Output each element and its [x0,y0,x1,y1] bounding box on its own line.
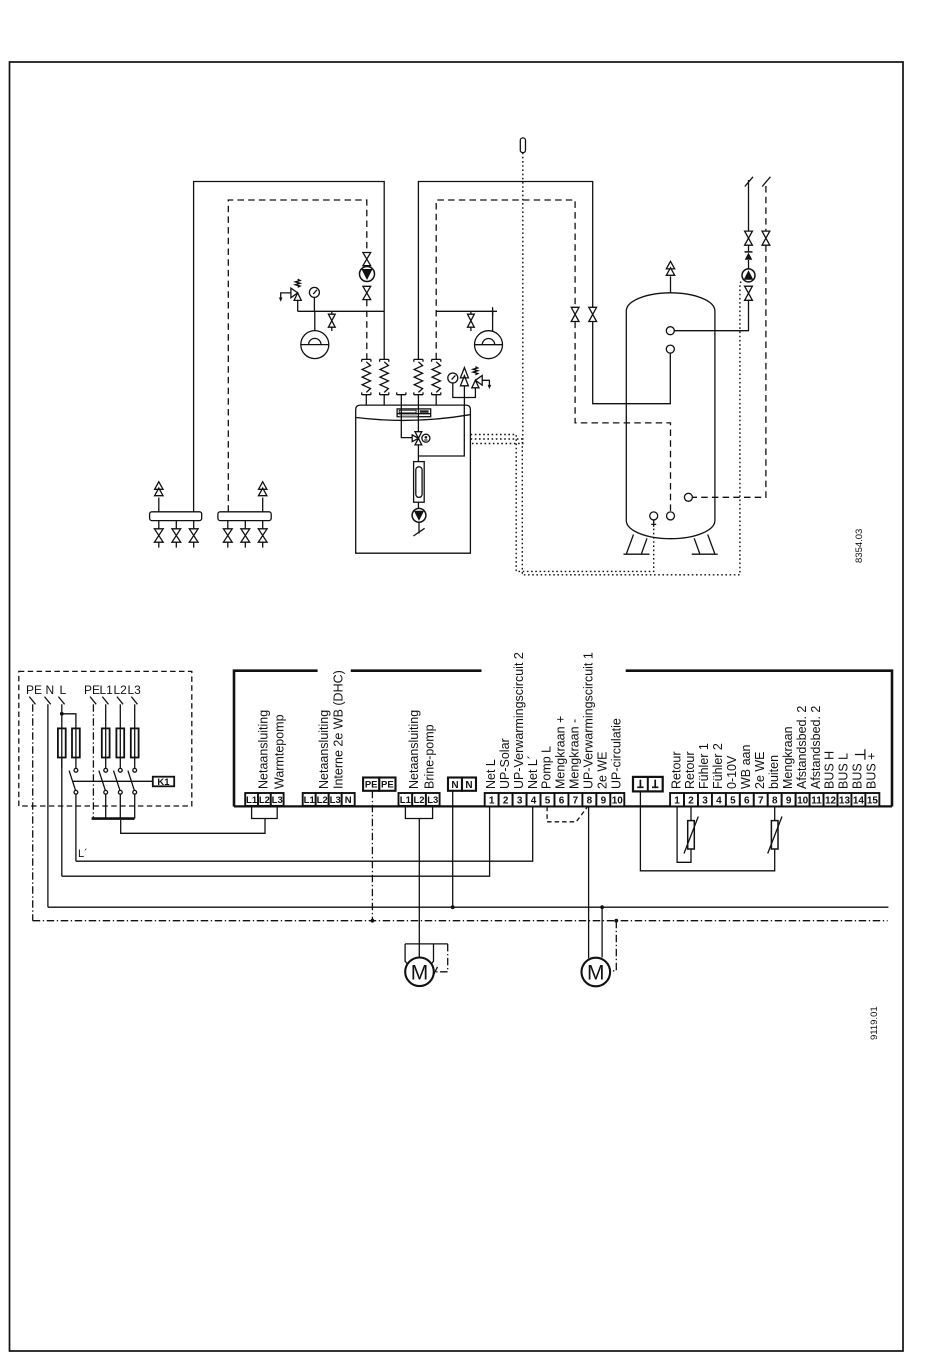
svg-text:UP-Verwarmingscircuit 1: UP-Verwarmingscircuit 1 [582,652,596,789]
svg-text:Net L´: Net L´ [526,755,540,789]
svg-text:PE: PE [26,683,42,697]
wire V8 stub [470,327,472,331]
svg-text:L1: L1 [400,795,412,806]
svg-text:Warmtepomp: Warmtepomp [273,714,287,789]
wire HP port stem x=384.2 [383,395,385,405]
wire gauge1 stem [313,297,315,311]
wire vent stem x=158.8 [158,498,160,512]
tank right leg [692,535,718,555]
svg-text:L2: L2 [114,683,128,697]
slide contact mark M1 [433,967,438,977]
svg-text:13: 13 [839,795,851,806]
svg-text:L: L [60,683,67,697]
terminal X2-4 [712,793,726,806]
svg-text:N: N [451,780,458,791]
svg-text:BUS L: BUS L [837,753,851,789]
terminal WP L3 [271,793,284,806]
svg-text:Afstandsbed. 2: Afstandsbed. 2 [809,706,823,789]
terminal WB L3 [329,793,342,806]
outdoor sensor B1 [520,138,525,153]
wire HP port stem x=366.3 [365,395,367,405]
wire splice mid leg [429,944,433,967]
wire SV1 stem [297,300,299,311]
heat pump internal level curve [356,415,470,421]
terminal PE a [363,778,379,791]
tank port C1 [666,327,674,335]
wire ground block to sensor line [640,792,774,871]
flex top flange x=436.2 [432,359,441,361]
wire K1 control link [73,780,153,782]
svg-text:PE: PE [365,780,378,791]
controller plate [397,409,431,417]
svg-text:L2: L2 [317,795,328,806]
fill cap cross [492,307,494,315]
terminal X2-9 [782,793,796,806]
wire DHW return dashed lower [692,245,766,497]
node PE terminal junction [371,919,375,923]
wire dotted control to tank sensor [471,435,654,572]
wire manifold valve stem x=176.3 [175,521,177,548]
svg-text:M: M [411,961,429,984]
terminal X2-1 [670,793,684,806]
manifold valve x=262.7 [258,529,267,542]
terminal X1-5 [541,793,555,806]
wire PE2 drop [92,704,94,818]
wire to internal pump [417,502,419,508]
mixing valve actuator [422,434,430,442]
manifold valve x=245.3 [241,529,250,542]
svg-text:3: 3 [702,795,708,806]
wire safety bracket right [453,383,476,398]
switch contact x=120.3 [114,768,123,794]
switch contact x=75.9 [69,768,78,794]
svg-text:Netaansluiting: Netaansluiting [407,710,421,789]
wire through fuse x=134.7 [134,730,136,769]
manifold 1 [150,512,202,521]
svg-text:buiten: buiten [767,755,781,789]
wire below internal pump with break slash [413,522,424,536]
terminal X2-3 [698,793,712,806]
terminal X2-2 [684,793,698,806]
drain valve V7 [331,311,333,314]
pressure gauge PG1 [309,287,319,297]
pump P2 heating circuit [360,267,375,282]
wire tank vent stem [670,276,672,293]
svg-text:12: 12 [825,795,837,806]
svg-text:Net L: Net L [484,759,498,789]
wire HP return from tank (dashed) [436,200,575,359]
wire HP internal valve bottom to flow meter [417,445,419,462]
svg-text:5: 5 [730,795,736,806]
svg-text:L3: L3 [272,795,283,806]
terminal X2-8 [768,793,782,806]
terminal X1-6 [555,793,569,806]
pressure gauge PG2 [448,373,458,383]
terminal block grounds [633,777,663,792]
valve V4 below pump P2 [363,286,371,299]
manifold valve x=227.8 [223,529,232,542]
heat pump unit box [356,405,471,553]
terminal X1-1 [485,793,499,806]
wire through fuse x=75.9 [75,730,77,769]
wire PE bus dash-dot [33,920,888,922]
wire manifold valve stem x=227.8 [227,521,229,548]
wire PE drop [32,704,34,920]
manifold valve x=176.3 [172,529,181,542]
svg-text:Netaansluiting: Netaansluiting [317,710,331,789]
svg-text:2e WE: 2e WE [596,751,610,789]
wire HP supply to tank (solid) [418,182,592,360]
svg-text:PE: PE [84,683,100,697]
svg-text:UP-Solar: UP-Solar [498,738,512,789]
valve V3 above pump P2 [363,253,371,266]
pump P1 internal [412,508,426,522]
svg-text:1: 1 [489,795,495,806]
wire heating circuit 2 (dashed riser manifold2 to top) [228,200,366,512]
incoming feed slash x=134.7 [131,697,137,705]
valve V5 on dashed return [571,307,579,321]
tank air vent [666,261,674,275]
wire tank supply lower segment [593,322,671,404]
wire N drop [47,704,49,907]
wire outdoor sensor dotted lead [471,153,523,444]
flex top flange x=366.3 [362,359,371,361]
svg-text:5: 5 [545,795,551,806]
terminal X2-6 [740,793,754,806]
wire L branch to second fuse [62,714,76,730]
drain valve V7 body [328,314,335,327]
terminal X2-11 [810,793,824,806]
HP port flange x=401.3 [397,392,406,394]
wire splice left leg [405,944,410,967]
wire dotted control to DHW pump [471,280,744,575]
check valve CV1 [748,260,750,269]
valve V10 [745,231,753,245]
tank port C3 [667,512,675,520]
storage tank body [626,293,715,539]
ground symbol x=640.4 [637,780,643,788]
terminal WP L2 [258,793,271,806]
flex top flange x=418.4 [414,359,423,361]
svg-text:8: 8 [587,795,593,806]
wire phase drop to cable bar x=105.7 [105,794,107,818]
svg-text:2: 2 [503,795,509,806]
switch contact x=105.7 [99,768,108,794]
flexible hose x=418.4 [414,362,422,393]
fuse x=134.7 [131,728,139,757]
svg-text:L1: L1 [304,795,316,806]
wire phase drop to cable bar x=134.7 [134,794,136,818]
svg-text:8354.03: 8354.03 [854,529,865,563]
svg-text:WB aan: WB aan [739,744,753,789]
wire Net L terminal 1 loop [62,807,490,877]
wire HP internal pipe to mixing valve left port [401,405,412,438]
wire cable to warmtepomp terminals [121,820,265,833]
incoming feed slash x=93.4 [90,697,96,705]
svg-text:3: 3 [517,795,523,806]
terminal X1-2 [499,793,513,806]
incoming feed slash x=47.9 [45,697,51,705]
terminal BP L2 [412,793,426,806]
wire safety/expansion line right [436,310,497,312]
svg-text:BUS: BUS [851,763,865,789]
svg-text:Brine-pomp: Brine-pomp [423,724,437,789]
svg-text:BUS H: BUS H [823,751,837,789]
svg-text:L1: L1 [246,795,258,806]
motor M2 mixing valve drive [582,958,611,987]
wire L1 drop [105,704,107,729]
safety valve SV1 [279,279,301,301]
node M2 N tap [600,905,604,909]
wire HP port stem x=436.2 [435,395,437,405]
terminal X1-3 [513,793,527,806]
wire heating circuit 1 supply (solid riser manifold1 to top to HP) [194,182,385,512]
svg-text:L´: L´ [78,848,88,860]
svg-text:Interne 2e WB (DHC): Interne 2e WB (DHC) [332,670,346,789]
svg-text:2e WE: 2e WE [753,751,767,789]
tank sensor probe mark [651,520,656,527]
svg-text:2: 2 [688,795,694,806]
wire vent stem into HP [463,386,465,405]
wire phase drop to cable bar x=120.3 [119,794,121,818]
svg-text:14: 14 [853,795,865,806]
terminal X2-7 [754,793,768,806]
wire manifold valve stem x=158.8 [158,521,160,548]
svg-text:N: N [46,683,55,697]
controller box outline [234,671,892,807]
expansion vessel EV2 [475,331,503,359]
cable splice bar M1 [405,943,448,945]
wire L unswitched continues [61,757,63,876]
wire through fuse x=61.8 [61,730,63,769]
node M2 PE tap [614,919,618,923]
cable gathering bar [92,817,135,820]
HP port flange x=366.3 [362,392,371,394]
svg-text:9119.01: 9119.01 [869,1006,880,1040]
svg-text:11: 11 [811,795,822,806]
expansion vessel EV1 [301,331,329,359]
svg-text:L1: L1 [100,683,114,697]
svg-text:BUS +: BUS + [865,753,879,789]
flexible hose x=384.2 [380,362,388,393]
wire terminal X2-1 to sensor R1 [677,807,691,863]
valve V11 dashed return [762,231,770,245]
mixing valve 3-way [412,432,422,445]
fuse x=61.8 [58,728,66,757]
terminal X2-15 [865,793,879,806]
wire sensor R1 to terminal X2-2 [690,807,692,821]
terminal X1-10 [610,793,624,806]
tank port C5 [684,493,692,501]
wire V7 stub [331,327,333,331]
svg-text:L3: L3 [330,795,341,806]
terminal WP L1 [245,793,258,806]
manifold air vent x=158.8 [155,482,163,496]
fuse x=105.7 [102,728,110,757]
motor M1 brine pump [405,958,434,987]
wire HP internal pipe valve top [417,405,419,431]
wire jumper terminal 5 to 8 dashed [547,807,587,822]
flexible hose x=436.2 [432,362,440,393]
wire vessel1 stem [314,311,316,330]
wire dashed return lower segment [575,322,670,512]
wire circuit2 pump drop (dashed below pump to flex) [366,300,368,360]
wire PE tap to motor M2 [611,921,617,971]
wire brine terminal bracket [405,807,432,819]
flex top flange x=384.2 [380,359,389,361]
svg-text:Afstandsbed. 2: Afstandsbed. 2 [795,706,809,789]
sensor R2 [768,817,782,854]
terminal X1-4 [527,793,541,806]
svg-text:9: 9 [601,795,607,806]
HP port flange x=384.2 [380,392,389,394]
wire manifold valve stem x=245.3 [244,521,246,548]
wire manifold valve stem x=262.7 [262,521,264,548]
svg-text:L2: L2 [414,795,425,806]
manifold air vent x=262.7 [259,482,267,496]
fuse x=120.3 [116,728,124,757]
controller box bottom edge [234,805,892,807]
wire switched L drop [75,794,77,861]
svg-text:Fühler 2: Fühler 2 [711,743,725,789]
terminal X2-5 [726,793,740,806]
svg-text:1: 1 [674,795,680,806]
wire manifold valve stem x=193.7 [193,521,195,548]
switch contact x=134.7 [128,768,137,794]
terminal N b [462,778,476,791]
terminal X1-9 [596,793,610,806]
svg-text:4: 4 [716,795,722,806]
pump P4 DHW circulation [742,269,755,282]
wire DHW riser top with break slash [745,177,753,231]
flexible hose x=366.3 [362,362,370,393]
svg-text:UP-circulatie: UP-circulatie [610,718,624,789]
svg-text:N: N [465,780,472,791]
sensor R1 [684,817,698,854]
svg-text:UP-Verwarmingscircuit 2: UP-Verwarmingscircuit 2 [512,652,526,789]
wire HP port stem x=418.4 [417,395,419,405]
incoming feed slash x=32.7 [29,697,35,705]
wire brine cable to motor M1 [418,819,420,958]
terminal X2-13 [838,793,852,806]
svg-text:L3: L3 [128,683,142,697]
svg-text:Retour: Retour [683,751,697,789]
safety valve SV2 [472,367,491,389]
wire N-N to N bus [452,791,454,907]
svg-text:Pomp L: Pomp L [540,746,554,789]
terminal X1-7 [568,793,582,806]
drain valve V8 body [468,314,475,327]
svg-text:7: 7 [758,795,764,806]
label BUS ground symbol [855,749,865,759]
wire L drop to fuse [61,704,63,729]
wire HP port stem x=401.3 [400,395,402,405]
fuse x=75.9 [72,728,80,757]
terminal N a [448,778,462,791]
svg-text:K1: K1 [157,777,170,788]
terminal BP L1 [399,793,413,806]
svg-text:N: N [345,795,352,806]
svg-text:15: 15 [867,795,879,806]
terminal X1-8 [582,793,596,806]
wire warmtepomp terminal bracket [252,807,278,822]
distribution board dashed box [19,671,192,806]
air vent AV3 [460,368,468,386]
drain valve V8 [470,311,472,314]
HP port flange x=418.4 [414,392,423,394]
svg-text:Mengkraan -: Mengkraan - [568,719,582,789]
terminal X2-12 [824,793,838,806]
svg-text:PE: PE [381,780,394,791]
pipe break slash dashed [762,177,770,187]
wire splice PE leg dash-dot [436,944,448,972]
svg-text:Fühler 1: Fühler 1 [697,743,711,789]
wire vent stem x=262.7 [262,498,264,512]
terminal WB L1 [303,793,316,806]
wire PE-PE to PE bus [371,791,373,921]
wire terminal X2-8 to sensor R2 [774,807,776,821]
manifold valve x=193.7 [189,529,198,542]
svg-text:Netaansluiting: Netaansluiting [257,710,271,789]
terminal X2-10 [796,793,810,806]
flow meter body [414,462,425,503]
wire safety/expansion line left [298,310,385,312]
wire Net L-prime terminal 4 loop [76,807,533,862]
svg-text:7: 7 [573,795,579,806]
svg-text:L2: L2 [259,795,270,806]
HP port flange x=436.2 [432,392,441,394]
terminal PE b [379,778,395,791]
wire N bus [48,906,889,908]
wire DHW circulation solid [674,300,748,330]
svg-text:8: 8 [772,795,778,806]
flow meter float [416,467,422,498]
valve V9 below pump P4 [745,286,753,300]
svg-text:9: 9 [786,795,792,806]
tank port C2 [666,345,674,353]
svg-text:Mengkraan: Mengkraan [781,726,795,789]
svg-text:M: M [587,962,605,985]
wire N tap to motor M2 [601,907,603,957]
svg-text:L3: L3 [427,795,438,806]
wire L2 drop [119,704,121,729]
wire HP internal right drop [418,405,464,456]
tank left leg [624,535,650,555]
terminal BP L3 [426,793,440,806]
incoming feed slash x=105.7 [102,697,108,705]
svg-text:Retour: Retour [669,751,683,789]
wire L3 drop [134,704,136,729]
svg-text:Mengkraan +: Mengkraan + [554,716,568,789]
manifold valve x=158.8 [154,529,163,542]
wire terminal 8 to motor M2 [588,807,590,959]
svg-text:0-10V: 0-10V [725,755,739,789]
terminal X2-14 [851,793,865,806]
node N terminal junction [451,905,455,909]
manifold 2 [218,512,271,521]
wire check valve to valve V10 [748,245,750,252]
tank sensor port C4 [650,512,658,520]
terminal WB L2 [316,793,329,806]
node L branch [60,712,64,716]
svg-text:10: 10 [612,795,624,806]
incoming feed slash x=61.8 [58,697,64,705]
wire through fuse x=105.7 [105,730,107,769]
svg-text:10: 10 [797,795,809,806]
wire through fuse x=120.3 [119,730,121,769]
wire DHW return dashed [765,186,767,231]
wire vessel2 stem [492,311,494,331]
